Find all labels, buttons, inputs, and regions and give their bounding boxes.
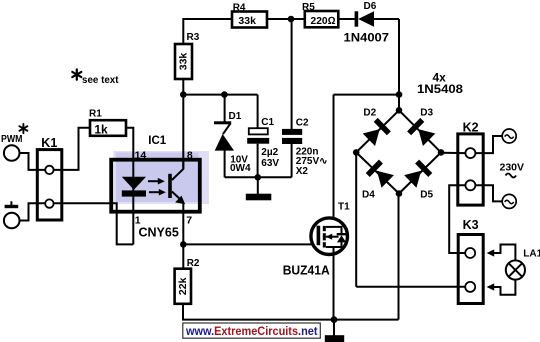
svg-text:D4: D4	[362, 190, 375, 201]
svg-text:1N4007: 1N4007	[344, 31, 390, 45]
svg-text:22k: 22k	[177, 277, 189, 295]
svg-text:33k: 33k	[238, 15, 256, 27]
svg-text:D2: D2	[363, 108, 376, 119]
svg-text:220Ω: 220Ω	[311, 15, 336, 27]
svg-text:CNY65: CNY65	[139, 225, 179, 239]
svg-text:K1: K1	[41, 136, 57, 150]
svg-text:R1: R1	[89, 109, 102, 120]
svg-text:D6: D6	[364, 1, 377, 12]
svg-text:K2: K2	[463, 120, 479, 134]
svg-text:IC1: IC1	[148, 135, 167, 147]
svg-text:8: 8	[187, 150, 193, 162]
svg-text:PWM: PWM	[1, 134, 23, 145]
svg-text:D5: D5	[420, 190, 433, 201]
svg-text:T1: T1	[338, 201, 350, 212]
svg-text:X2: X2	[296, 166, 309, 177]
svg-text:R5: R5	[302, 2, 315, 13]
svg-text:2µ2: 2µ2	[261, 147, 278, 158]
svg-text:LA1: LA1	[523, 249, 540, 260]
svg-text:D1: D1	[229, 111, 242, 122]
svg-text:K3: K3	[463, 218, 479, 232]
svg-text:230V: 230V	[500, 161, 525, 173]
svg-text:R3: R3	[187, 32, 200, 43]
svg-text:see text: see text	[82, 75, 119, 86]
svg-text:14: 14	[135, 150, 147, 162]
svg-text:D3: D3	[420, 108, 433, 119]
svg-text:C2: C2	[296, 118, 309, 129]
svg-text:1N5408: 1N5408	[417, 82, 463, 96]
svg-text:33k: 33k	[177, 53, 189, 71]
svg-text:63V: 63V	[261, 158, 279, 169]
svg-text:R4: R4	[233, 3, 246, 14]
svg-text:7: 7	[186, 214, 192, 226]
svg-text:0W4: 0W4	[230, 163, 251, 174]
svg-text:R2: R2	[187, 258, 200, 269]
svg-text:1k: 1k	[94, 122, 108, 136]
svg-text:BUZ41A: BUZ41A	[283, 263, 331, 278]
svg-text:www.ExtremeCircuits.net: www.ExtremeCircuits.net	[185, 324, 317, 338]
svg-text:C1: C1	[261, 117, 274, 128]
